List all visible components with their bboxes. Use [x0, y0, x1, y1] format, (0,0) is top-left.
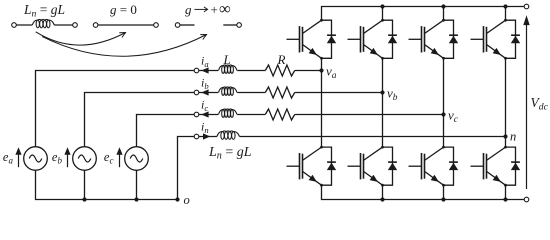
wire R to vb [295, 92, 383, 94]
wire o to neutral line [178, 137, 195, 200]
wire source bus to node o [36, 170, 178, 199]
transistor S7 (IGBT) [409, 146, 445, 187]
wire terminal to L (c) [199, 114, 218, 116]
transistor S4 (IGBT) [471, 19, 507, 60]
wire terminal to L (b) [199, 92, 218, 94]
source ea (AC) [15, 147, 47, 171]
junction DC- leg 3 [441, 197, 445, 201]
junction DC- leg 2 [380, 197, 384, 201]
wire L to R (b) [237, 92, 265, 94]
transistor S2 (IGBT) [348, 19, 384, 60]
transistor S5 (IGBT) [287, 146, 323, 187]
svg-text:∞: ∞ [219, 0, 231, 18]
svg-text:Ln = gL: Ln = gL [208, 145, 252, 162]
wire ec bottom [136, 170, 138, 199]
svg-text:ec: ec [104, 150, 114, 166]
svg-text:R: R [277, 52, 286, 67]
inductor L (a) [219, 65, 238, 73]
svg-text:eb: eb [52, 150, 63, 166]
terminal DC- [524, 197, 529, 202]
node va [319, 68, 323, 72]
wire L to R (c) [237, 114, 265, 116]
wire leg 4 midpoint [505, 58, 507, 147]
open-circuit g->+inf [175, 23, 241, 28]
wire ea to terminal [36, 71, 195, 147]
svg-text:L: L [223, 52, 231, 67]
svg-text:vc: vc [448, 108, 459, 126]
current arrow ic [201, 111, 208, 117]
junction DC+ leg 2 [380, 4, 384, 8]
diode D1 (antiparallel) [322, 20, 337, 58]
current arrow in [203, 133, 210, 139]
svg-text:g = 0: g = 0 [110, 2, 137, 17]
svg-text:g: g [185, 2, 192, 17]
junction ec-bus [134, 197, 138, 201]
wire R to vc [295, 114, 444, 116]
wire leg 4 top stub [505, 7, 507, 21]
svg-text:n: n [510, 130, 516, 144]
transistor S6 (IGBT) [348, 146, 384, 187]
wire leg 3 midpoint [443, 58, 445, 147]
svg-text:vb: vb [387, 86, 398, 104]
wire leg 2 midpoint [382, 58, 384, 147]
svg-text:in: in [201, 120, 209, 136]
terminal neutral [194, 134, 199, 139]
resistor R (c) [265, 109, 294, 120]
inductor L (c) [219, 109, 238, 117]
node n [503, 134, 507, 138]
wire R to va [295, 70, 322, 72]
terminal phase c [194, 112, 199, 117]
node vb [380, 90, 384, 94]
inductor Ln [217, 131, 240, 139]
current arrow ia [201, 67, 208, 73]
wire Ln to node n [240, 136, 506, 138]
diode D8 (antiparallel) [506, 147, 521, 185]
wire DC+ rail [322, 7, 524, 21]
wire DC- rail [322, 185, 524, 199]
wire leg 1 midpoint [321, 58, 323, 147]
wire ec to terminal [137, 115, 195, 147]
wire g=0 (short circuit) [93, 23, 158, 28]
source ec (AC) [116, 147, 148, 171]
terminal phase b [194, 90, 199, 95]
wire leg 2 top stub [382, 7, 384, 21]
terminal phase a [194, 68, 199, 73]
inductor Ln demo [12, 19, 78, 27]
diode D7 (antiparallel) [444, 147, 459, 185]
junction DC- leg 4 [503, 197, 507, 201]
node o [175, 197, 179, 201]
source eb (AC) [64, 147, 96, 171]
wire terminal to Ln [199, 136, 217, 138]
wire eb bottom [84, 170, 86, 199]
wire leg 3 bottom stub [443, 185, 445, 199]
svg-text:o: o [184, 193, 190, 207]
wire leg 2 bottom stub [382, 185, 384, 199]
svg-text:va: va [326, 64, 337, 82]
wire leg 4 bottom stub [505, 185, 507, 199]
current arrow ib [201, 89, 208, 95]
wire leg 3 top stub [443, 7, 445, 21]
transistor S3 (IGBT) [409, 19, 445, 60]
resistor R (a) [265, 65, 294, 76]
node vc [441, 112, 445, 116]
junction eb-bus [82, 197, 86, 201]
inductor L (b) [219, 87, 238, 95]
svg-text:ic: ic [201, 98, 208, 114]
resistor R (b) [265, 87, 294, 98]
transistor S1 (IGBT) [287, 19, 323, 60]
diode D6 (antiparallel) [383, 147, 398, 185]
svg-text:Vdc: Vdc [531, 95, 549, 113]
diode D2 (antiparallel) [383, 20, 398, 58]
transistor S8 (IGBT) [471, 146, 507, 187]
svg-text:ib: ib [201, 76, 209, 92]
arrow from Ln to g=0 [36, 32, 126, 45]
svg-text:ea: ea [3, 150, 14, 166]
arrow from Ln to g->+inf [42, 35, 206, 57]
svg-text:+: + [211, 2, 218, 17]
svg-text:Ln = gL: Ln = gL [23, 2, 65, 20]
diode D5 (antiparallel) [322, 147, 337, 185]
wire terminal to L (a) [199, 70, 218, 72]
Vdc arrow [523, 15, 529, 189]
svg-text:ia: ia [201, 54, 209, 70]
wire L to R (a) [237, 70, 265, 72]
junction DC+ leg 3 [441, 4, 445, 8]
diode D4 (antiparallel) [506, 20, 521, 58]
terminal DC+ [524, 4, 529, 9]
diode D3 (antiparallel) [444, 20, 459, 58]
wire eb to terminal [85, 93, 195, 147]
junction DC+ leg 4 [503, 4, 507, 8]
